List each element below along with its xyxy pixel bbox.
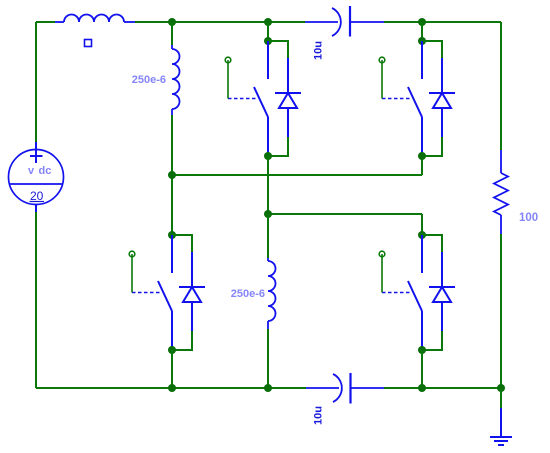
- gate terminal G3: [129, 251, 135, 292]
- switch S3 gate dashed link: [132, 292, 161, 294]
- switch S4 gate dashed link: [382, 292, 411, 294]
- wire branch x=422 lower: [421, 350, 423, 388]
- resistor R1 100: [494, 150, 508, 234]
- svg-text:100: 100: [519, 212, 538, 224]
- node K-L bottom: [168, 346, 176, 354]
- switch S1 gate dashed link: [228, 98, 257, 100]
- node Q (501,388): [497, 384, 505, 392]
- node F-G top: [418, 37, 426, 45]
- flag marker under L1: [85, 40, 92, 47]
- node J-M bottom: [418, 346, 426, 354]
- wire branch x=172 lower: [171, 350, 173, 388]
- gate terminal G1: [225, 57, 231, 98]
- node J-M top: [418, 231, 426, 239]
- svg-text:dc: dc: [39, 165, 52, 177]
- voltage source V1 plus terminal: [30, 142, 43, 163]
- wire branch x=422 upper: [421, 22, 423, 41]
- capacitor C2 10u (bottom): [306, 373, 384, 404]
- wire mid rail 2: [268, 214, 422, 235]
- node H (172,175): [168, 171, 176, 179]
- wire switch 3 loop: [172, 235, 192, 350]
- inductor L1 input (horizontal): [55, 15, 135, 23]
- wire branch x=268 lower: [267, 214, 269, 388]
- node F-G bottom: [418, 152, 426, 160]
- gate terminal G2: [379, 57, 385, 98]
- wire switch 4 loop: [422, 235, 442, 350]
- svg-text:10u: 10u: [313, 41, 325, 60]
- svg-text:10u: 10u: [313, 406, 325, 425]
- diode D2: [429, 58, 455, 137]
- ground wire: [500, 388, 502, 408]
- wire top rail: [36, 21, 501, 23]
- inductor L3 250e-6 (middle vertical): [268, 258, 276, 329]
- inductor L2 250e-6 (left vertical): [172, 45, 180, 115]
- switch S2 contacts and blade: [408, 41, 422, 156]
- node P (422,388): [418, 384, 426, 392]
- wire bottom rail: [36, 387, 501, 389]
- node N (172,388): [168, 384, 176, 392]
- wire left rail: [35, 22, 37, 388]
- voltage source V1 divider line: [9, 183, 63, 185]
- voltage source V1 bottom lead: [35, 205, 37, 213]
- wire branch x=172 upper: [171, 22, 173, 235]
- node O (268,388): [264, 384, 272, 392]
- wire switch 2 loop: [422, 41, 442, 156]
- node D-E bottom: [264, 152, 272, 160]
- svg-text:250e-6: 250e-6: [132, 74, 166, 86]
- switch S4 contacts and blade: [408, 235, 422, 350]
- capacitor C1 10u (top): [305, 6, 384, 37]
- wire right rail: [500, 22, 502, 388]
- svg-text:v: v: [28, 165, 35, 177]
- ground symbol: [490, 408, 512, 445]
- svg-text:250e-6: 250e-6: [231, 288, 265, 300]
- node K-L top: [168, 231, 176, 239]
- wire mid rail 1: [172, 156, 422, 175]
- node A (172,22): [168, 18, 176, 26]
- diode D3: [179, 252, 205, 331]
- wire switch 1 loop: [268, 41, 288, 156]
- diode D1: [275, 58, 301, 137]
- node I (268,214): [264, 210, 272, 218]
- gate terminal G4: [379, 251, 385, 292]
- voltage source V1 circle: [9, 150, 64, 205]
- switch S2 gate dashed link: [382, 98, 411, 100]
- wire branch x=268 middle: [267, 156, 269, 214]
- diode D4: [429, 252, 455, 331]
- node B (268,22): [264, 18, 272, 26]
- switch S3 contacts and blade: [158, 235, 172, 350]
- wire branch x=268 upper: [267, 22, 269, 41]
- node D-E top: [264, 37, 272, 45]
- node C (422,22): [418, 18, 426, 26]
- switch S1 contacts and blade: [254, 41, 268, 156]
